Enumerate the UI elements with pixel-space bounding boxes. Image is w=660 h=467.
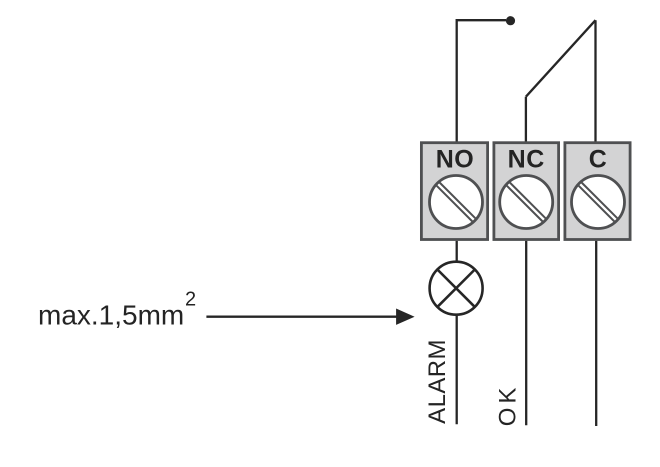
screw terminal NC bbox=[500, 176, 553, 229]
wire: NO terminal to lamp bbox=[456, 241, 458, 262]
wire: C terminal lead bbox=[595, 241, 597, 426]
svg-text:C: C bbox=[589, 146, 608, 174]
svg-text:OK: OK bbox=[494, 384, 521, 427]
wire: C terminal riser bbox=[594, 20, 596, 142]
wire: lamp to ALARM lead end bbox=[456, 315, 458, 424]
node: open contact dot bbox=[506, 16, 515, 25]
terminal block C body bbox=[565, 143, 630, 240]
svg-text:NC: NC bbox=[508, 146, 545, 174]
screw terminal NO bbox=[430, 176, 483, 229]
svg-text:ALARM: ALARM bbox=[424, 339, 451, 424]
svg-text:2: 2 bbox=[185, 289, 196, 311]
svg-text:max.1,5mm: max.1,5mm bbox=[38, 299, 184, 330]
terminal block NC body bbox=[494, 143, 559, 240]
terminal block NO body bbox=[421, 143, 487, 240]
annotation arrow head bbox=[396, 309, 415, 325]
wire: NC terminal stub bbox=[525, 97, 527, 142]
wire: NO terminal riser to open contact bbox=[457, 20, 506, 142]
switch blade from C top toward NC bbox=[526, 20, 596, 97]
wire: NC terminal lead (OK) bbox=[525, 241, 527, 425]
annotation arrow shaft bbox=[206, 316, 399, 318]
lamp / alarm indicator X1 bbox=[430, 262, 483, 315]
svg-text:NO: NO bbox=[436, 146, 475, 174]
screw terminal C bbox=[572, 176, 625, 229]
